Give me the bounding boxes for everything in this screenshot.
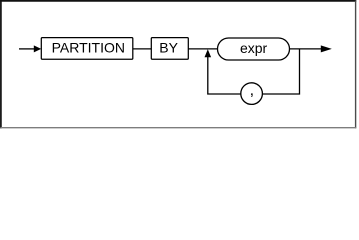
svg-text:,: , [250,82,254,99]
svg-text:PARTITION: PARTITION [52,40,125,56]
svg-text:BY: BY [159,40,178,56]
svg-text:expr: expr [240,40,268,56]
